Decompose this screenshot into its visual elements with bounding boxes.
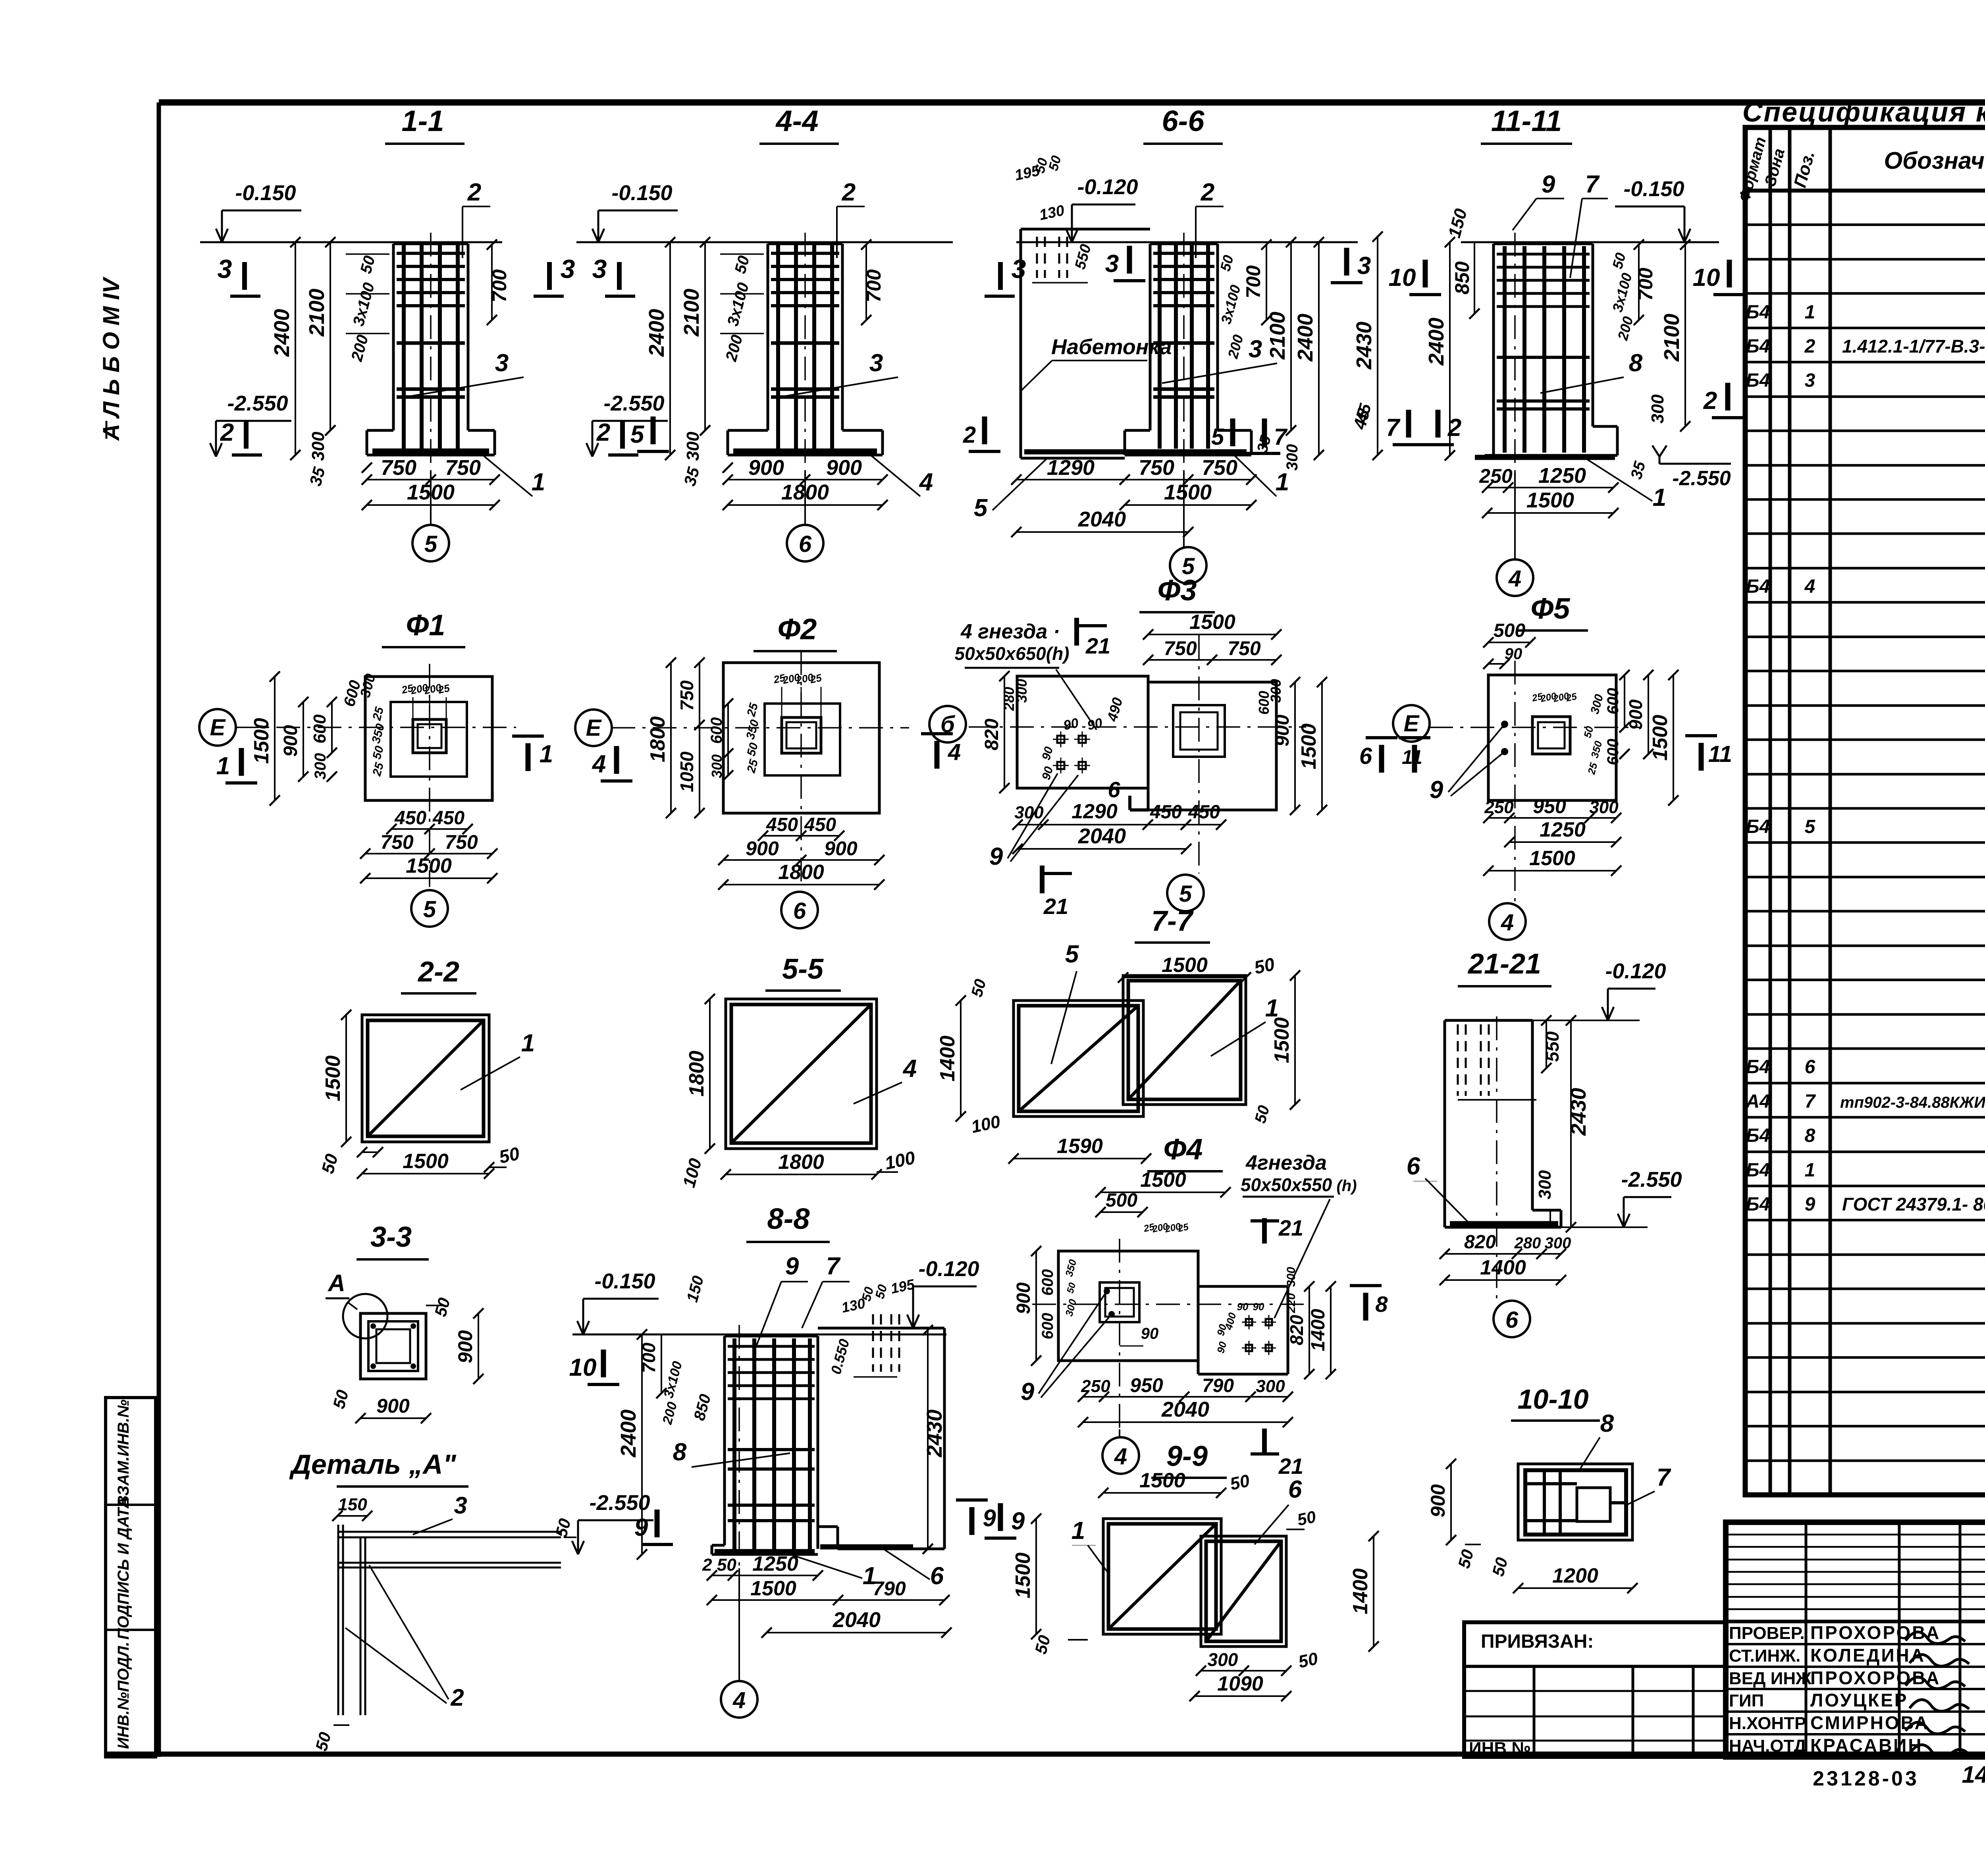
svg-text:90: 90	[1141, 1325, 1159, 1342]
svg-text:750: 750	[676, 680, 697, 711]
svg-text:1: 1	[1805, 302, 1815, 323]
svg-text:2: 2	[963, 422, 976, 448]
svg-text:90: 90	[1086, 715, 1104, 733]
svg-text:6: 6	[799, 531, 812, 557]
svg-text:790: 790	[873, 1577, 906, 1600]
svg-text:90: 90	[1237, 1301, 1249, 1313]
sidebar stamp boxes	[106, 1398, 156, 1757]
svg-text:4гнезда: 4гнезда	[1245, 1151, 1327, 1174]
svg-text:9: 9	[1805, 1194, 1815, 1215]
svg-text:450: 450	[766, 814, 798, 835]
svg-text:2: 2	[450, 1684, 464, 1711]
svg-text:90: 90	[1062, 715, 1080, 733]
svg-text:1500: 1500	[1526, 488, 1574, 512]
svg-text:3: 3	[1357, 252, 1371, 280]
svg-text:900: 900	[746, 837, 779, 860]
svg-text:1: 1	[1072, 1517, 1085, 1544]
svg-text:450: 450	[394, 808, 426, 829]
svg-text:ПОДПИСЬ И ДАТА: ПОДПИСЬ И ДАТА	[115, 1497, 132, 1640]
svg-text:10: 10	[1693, 264, 1720, 291]
svg-text:-0.150: -0.150	[1623, 177, 1684, 201]
svg-text:1: 1	[1805, 1160, 1815, 1181]
svg-text:КОЛЕДИНА: КОЛЕДИНА	[1810, 1645, 1925, 1666]
svg-text:600: 600	[1604, 688, 1622, 715]
svg-text:7: 7	[1274, 424, 1288, 450]
svg-text:7: 7	[1386, 414, 1401, 442]
svg-text:Деталь: Деталь	[289, 1449, 401, 1480]
svg-text:1250: 1250	[1540, 818, 1586, 841]
svg-text:Е: Е	[210, 715, 226, 740]
svg-text:Ф3: Ф3	[1158, 574, 1197, 607]
svg-text:23128-03: 23128-03	[1813, 1767, 1919, 1790]
svg-text:5-5: 5-5	[782, 953, 824, 985]
svg-text:6: 6	[1359, 743, 1372, 769]
svg-text:250: 250	[1484, 798, 1514, 817]
svg-text:4-4: 4-4	[775, 104, 819, 137]
svg-text:820: 820	[1286, 1315, 1307, 1345]
svg-text:9: 9	[983, 1505, 996, 1531]
svg-text:4: 4	[902, 1055, 917, 1082]
svg-text:1500: 1500	[250, 718, 273, 764]
svg-text:4: 4	[919, 469, 933, 496]
svg-text:5: 5	[1805, 816, 1816, 837]
svg-text:2-2: 2-2	[417, 956, 459, 988]
svg-text:750: 750	[380, 831, 414, 853]
svg-text:500: 500	[1106, 1190, 1137, 1211]
svg-text:1400: 1400	[1480, 1256, 1526, 1279]
svg-text:900: 900	[1013, 1282, 1034, 1314]
svg-text:8: 8	[1805, 1125, 1815, 1146]
svg-text:А: А	[327, 1270, 345, 1296]
svg-text:8: 8	[1375, 1292, 1388, 1317]
svg-text:тп902-3-84.88КЖИ.00.00.03.00: тп902-3-84.88КЖИ.00.00.03.00	[1840, 1094, 1985, 1111]
svg-text:900: 900	[454, 1330, 476, 1363]
svg-text:3: 3	[592, 254, 607, 283]
svg-text:2: 2	[596, 419, 610, 446]
svg-text:900: 900	[376, 1395, 410, 1417]
svg-text:2400: 2400	[1424, 318, 1448, 366]
svg-text:7: 7	[826, 1253, 841, 1280]
svg-text:Б4: Б4	[1746, 576, 1770, 597]
svg-text:2: 2	[1703, 387, 1717, 415]
svg-text:6-6: 6-6	[1162, 104, 1205, 137]
svg-text:1800: 1800	[685, 1051, 708, 1097]
svg-text:А4: А4	[1745, 1091, 1770, 1112]
svg-text:450: 450	[432, 808, 464, 829]
svg-text:1500: 1500	[406, 854, 452, 877]
svg-text:700: 700	[1242, 265, 1264, 299]
svg-text:2: 2	[842, 179, 856, 206]
svg-text:21-21: 21-21	[1467, 948, 1541, 980]
svg-text:2400: 2400	[645, 309, 669, 357]
drawing frame border	[159, 99, 1985, 106]
svg-text:б: б	[940, 711, 956, 737]
svg-text:50х50х550: 50х50х550	[1241, 1174, 1332, 1195]
svg-text:2: 2	[1447, 414, 1461, 442]
svg-text:4: 4	[1501, 910, 1514, 935]
svg-text:6: 6	[1407, 1153, 1420, 1180]
svg-text:„А": „А"	[409, 1449, 457, 1480]
svg-text:Набетонка: Набетонка	[1051, 335, 1172, 359]
svg-text:4: 4	[592, 750, 606, 778]
svg-text:5: 5	[424, 531, 437, 557]
svg-text:2: 2	[1201, 179, 1214, 206]
svg-text:Б4: Б4	[1746, 816, 1770, 837]
svg-text:1250: 1250	[752, 1552, 798, 1575]
svg-text:6: 6	[930, 1562, 944, 1590]
svg-text:820: 820	[1464, 1232, 1496, 1253]
svg-text:750: 750	[445, 456, 481, 480]
svg-text:9: 9	[785, 1253, 799, 1280]
svg-text:900: 900	[1625, 699, 1646, 730]
svg-text:4: 4	[732, 1687, 746, 1713]
svg-text:КРАСАВИН: КРАСАВИН	[1810, 1735, 1923, 1756]
svg-text:21: 21	[1043, 894, 1068, 919]
svg-text:4: 4	[1114, 1444, 1127, 1469]
svg-text:(h): (h)	[1336, 1177, 1357, 1195]
svg-text:9: 9	[634, 1514, 648, 1541]
svg-text:Ф4: Ф4	[1164, 1133, 1203, 1166]
svg-text:7: 7	[1585, 171, 1600, 198]
svg-text:900: 900	[824, 837, 858, 860]
svg-text:3-3: 3-3	[370, 1221, 412, 1253]
svg-text:Б4: Б4	[1746, 1194, 1770, 1215]
svg-text:1050: 1050	[676, 751, 697, 792]
svg-text:450: 450	[1150, 802, 1182, 823]
svg-text:600: 600	[1256, 691, 1272, 715]
svg-text:-0.120: -0.120	[1605, 959, 1666, 983]
svg-text:3: 3	[869, 349, 883, 377]
svg-text:ИНВ.№ПОДЛ.: ИНВ.№ПОДЛ.	[115, 1642, 132, 1749]
svg-text:1800: 1800	[778, 861, 824, 884]
svg-text:9: 9	[1542, 171, 1555, 198]
svg-text:Ф2: Ф2	[778, 613, 817, 646]
svg-text:2430: 2430	[1352, 322, 1376, 370]
svg-text:-2.550: -2.550	[1621, 1168, 1682, 1192]
svg-text:600: 600	[1604, 739, 1622, 765]
svg-text:300: 300	[312, 753, 329, 780]
svg-text:11: 11	[1402, 746, 1422, 768]
svg-text:9: 9	[1430, 776, 1443, 804]
svg-text:2430: 2430	[923, 1409, 946, 1458]
svg-text:1500: 1500	[1529, 847, 1575, 870]
svg-text:50: 50	[1295, 1507, 1317, 1529]
svg-text:8-8: 8-8	[767, 1202, 810, 1235]
svg-text:300: 300	[1256, 1377, 1285, 1396]
svg-text:9-9: 9-9	[1166, 1440, 1208, 1472]
svg-text:1500: 1500	[1649, 715, 1672, 761]
svg-text:Б4: Б4	[1746, 336, 1770, 357]
svg-text:750: 750	[1164, 637, 1197, 659]
svg-text:750: 750	[381, 456, 416, 480]
svg-text:280: 280	[1514, 1234, 1541, 1252]
svg-text:Ф1: Ф1	[406, 609, 445, 642]
svg-text:250: 250	[1479, 465, 1513, 487]
svg-text:300: 300	[1014, 679, 1030, 703]
svg-text:-0.150: -0.150	[611, 181, 672, 205]
svg-text:600: 600	[1039, 1269, 1056, 1296]
svg-text:1290: 1290	[1072, 800, 1118, 823]
signatures	[1906, 1632, 1969, 1756]
svg-text:1400: 1400	[1308, 1309, 1329, 1351]
svg-text:1.412.1-1/77-В.3-020: 1.412.1-1/77-В.3-020	[1842, 336, 1985, 357]
svg-text:600: 600	[1039, 1313, 1056, 1340]
svg-text:3: 3	[218, 254, 232, 283]
svg-text:11-11: 11-11	[1491, 104, 1562, 137]
svg-text:1500: 1500	[1189, 611, 1235, 634]
svg-text:8: 8	[673, 1438, 687, 1466]
svg-text:90: 90	[1505, 645, 1522, 663]
svg-text:300: 300	[1535, 1170, 1555, 1199]
svg-text:ЛОУЦКЕР: ЛОУЦКЕР	[1810, 1690, 1908, 1710]
svg-text:1: 1	[1265, 995, 1279, 1022]
svg-text:1500: 1500	[322, 1055, 345, 1101]
svg-text:СТ.ИНЖ.: СТ.ИНЖ.	[1729, 1646, 1800, 1666]
svg-text:7-7: 7-7	[1151, 905, 1194, 937]
svg-text:2400: 2400	[1293, 314, 1317, 362]
svg-text:1: 1	[1653, 484, 1666, 511]
svg-text:700: 700	[638, 1342, 659, 1373]
svg-text:Ф5: Ф5	[1531, 592, 1571, 625]
svg-text:700: 700	[488, 269, 511, 303]
svg-text:900: 900	[280, 725, 301, 757]
svg-text:2100: 2100	[1660, 314, 1684, 362]
svg-text:1090: 1090	[1217, 1672, 1263, 1695]
svg-text:Б4: Б4	[1746, 1057, 1770, 1078]
svg-text:НАЧ.ОТД: НАЧ.ОТД	[1729, 1736, 1806, 1756]
svg-text:2 50: 2 50	[702, 1555, 736, 1575]
svg-text:2400: 2400	[617, 1409, 640, 1458]
svg-text:2040: 2040	[1161, 1398, 1209, 1421]
svg-text:5: 5	[423, 897, 436, 922]
svg-text:6: 6	[1805, 1057, 1815, 1078]
svg-text:3: 3	[561, 254, 575, 283]
svg-text:2: 2	[220, 419, 234, 446]
svg-text:2100: 2100	[305, 289, 329, 337]
svg-text:2400: 2400	[270, 309, 294, 357]
svg-text:3: 3	[1105, 250, 1119, 278]
svg-text:2100: 2100	[680, 289, 703, 337]
svg-text:ГИП: ГИП	[1729, 1691, 1764, 1710]
svg-text:ВЗАМ.ИНВ.№: ВЗАМ.ИНВ.№	[115, 1400, 132, 1507]
svg-text:10: 10	[1389, 264, 1416, 291]
svg-text:1800: 1800	[646, 716, 669, 762]
svg-text:6: 6	[793, 898, 806, 924]
svg-text:2: 2	[467, 179, 481, 206]
svg-text:300: 300	[1545, 1234, 1571, 1252]
svg-text:Н.ХОНТР: Н.ХОНТР	[1729, 1714, 1806, 1733]
svg-text:21: 21	[1278, 1215, 1303, 1240]
svg-text:ИНВ.№: ИНВ.№	[1469, 1739, 1531, 1758]
svg-text:2430: 2430	[1567, 1088, 1590, 1136]
svg-text:3: 3	[1249, 335, 1262, 363]
svg-text:10: 10	[569, 1354, 597, 1381]
svg-text:А Л Ь Б О М IV: А Л Ь Б О М IV	[98, 276, 124, 441]
svg-text:Е: Е	[586, 715, 602, 741]
svg-text:-0.150: -0.150	[235, 181, 296, 205]
svg-text:300: 300	[1648, 394, 1667, 424]
svg-text:700: 700	[1634, 268, 1657, 301]
svg-text:600: 600	[708, 717, 725, 744]
svg-text:5: 5	[630, 421, 645, 448]
svg-text:Б4: Б4	[1746, 302, 1770, 323]
svg-text:900: 900	[748, 456, 784, 480]
svg-text:1200: 1200	[1552, 1564, 1598, 1587]
svg-text:550: 550	[1542, 1031, 1563, 1062]
svg-text:3: 3	[495, 349, 509, 377]
svg-text:Б4: Б4	[1746, 1160, 1770, 1181]
svg-text:7: 7	[1657, 1464, 1671, 1491]
svg-text:2040: 2040	[1078, 507, 1126, 531]
svg-text:4 гнезда ·: 4 гнезда ·	[960, 620, 1060, 643]
svg-text:1: 1	[521, 1030, 535, 1057]
svg-text:150: 150	[338, 1495, 367, 1514]
svg-text:700: 700	[863, 269, 885, 303]
svg-text:-0.120: -0.120	[918, 1257, 979, 1281]
spec table grid	[1745, 127, 1985, 1495]
svg-text:3: 3	[454, 1492, 467, 1519]
svg-text:3: 3	[1805, 370, 1815, 391]
section marks near 4-4	[651, 416, 656, 444]
svg-text:750: 750	[1202, 456, 1237, 480]
svg-text:300: 300	[1208, 1649, 1238, 1670]
svg-text:14: 14	[1962, 1761, 1985, 1788]
svg-text:1400: 1400	[936, 1035, 959, 1082]
svg-text:-0.150: -0.150	[594, 1269, 655, 1293]
svg-text:2040: 2040	[1078, 824, 1126, 848]
svg-text:790: 790	[1202, 1375, 1234, 1396]
svg-text:5: 5	[974, 494, 988, 522]
svg-text:-2.550: -2.550	[1672, 467, 1731, 490]
svg-text:2: 2	[1804, 336, 1815, 357]
svg-text:-2.550: -2.550	[227, 391, 288, 415]
svg-text:6: 6	[1288, 1476, 1302, 1503]
svg-text:ВЕД ИНЖ: ВЕД ИНЖ	[1729, 1669, 1812, 1688]
svg-text:ПРИВЯЗАН:: ПРИВЯЗАН:	[1481, 1631, 1594, 1652]
svg-text:СМИРНОВА: СМИРНОВА	[1810, 1712, 1929, 1733]
svg-text:Б4: Б4	[1746, 1125, 1770, 1146]
svg-text:750: 750	[1139, 456, 1174, 480]
svg-text:ПРОВЕР.: ПРОВЕР.	[1729, 1623, 1805, 1643]
svg-text:1-1: 1-1	[402, 104, 444, 137]
svg-text:Спецификация к монолитным ф: Спецификация к монолитным фундаментам.	[1742, 96, 1985, 127]
svg-text:10-10: 10-10	[1517, 1384, 1588, 1415]
svg-text:1500: 1500	[1162, 954, 1208, 977]
svg-text:1290: 1290	[1047, 456, 1095, 480]
svg-text:450: 450	[804, 814, 836, 835]
svg-text:1250: 1250	[1538, 464, 1586, 488]
svg-text:5: 5	[1179, 881, 1192, 907]
svg-text:950: 950	[1130, 1374, 1163, 1396]
svg-text:500: 500	[1494, 620, 1525, 641]
svg-text:300: 300	[1589, 798, 1619, 817]
svg-text:600: 600	[310, 714, 330, 744]
svg-text:21: 21	[1278, 1454, 1303, 1479]
svg-text:220: 220	[1285, 1293, 1298, 1313]
svg-text:820: 820	[981, 719, 1002, 750]
svg-text:7: 7	[1805, 1091, 1816, 1112]
svg-text:1400: 1400	[1349, 1568, 1372, 1614]
svg-text:21: 21	[1085, 633, 1110, 658]
svg-text:50х50х650(h): 50х50х650(h)	[955, 643, 1070, 664]
svg-text:1500: 1500	[1297, 723, 1320, 769]
svg-text:5: 5	[1065, 941, 1079, 968]
svg-text:4: 4	[1804, 576, 1815, 597]
svg-text:Обозначение: Обозначение	[1884, 147, 1985, 174]
svg-text:950: 950	[1533, 795, 1566, 817]
svg-text:900: 900	[1272, 715, 1293, 746]
svg-text:1500: 1500	[1164, 480, 1212, 504]
svg-text:ГОСТ 24379.1- 80: ГОСТ 24379.1- 80	[1842, 1194, 1985, 1215]
svg-text:90: 90	[1253, 1301, 1264, 1313]
svg-text:Е: Е	[1404, 711, 1420, 737]
svg-text:1: 1	[540, 740, 553, 768]
svg-text:900: 900	[826, 456, 862, 480]
svg-text:Б4: Б4	[1746, 370, 1770, 391]
svg-text:9: 9	[1011, 1508, 1025, 1535]
svg-text:750: 750	[1228, 637, 1261, 659]
svg-text:-0.120: -0.120	[1077, 175, 1138, 199]
svg-text:6: 6	[1108, 777, 1120, 802]
svg-text:250: 250	[1081, 1377, 1110, 1396]
svg-text:-2.550: -2.550	[603, 391, 664, 415]
svg-text:5: 5	[1211, 424, 1224, 450]
svg-text:2100: 2100	[1266, 312, 1289, 360]
svg-text:900: 900	[1427, 1484, 1449, 1517]
svg-text:6: 6	[1505, 1307, 1519, 1333]
svg-text:3: 3	[1012, 254, 1026, 283]
svg-text:300: 300	[709, 754, 725, 778]
svg-text:4: 4	[1508, 566, 1521, 592]
svg-text:300: 300	[683, 432, 703, 461]
svg-text:-2.550: -2.550	[589, 1491, 650, 1515]
svg-text:450: 450	[1188, 802, 1220, 823]
svg-text:1: 1	[1276, 469, 1289, 496]
svg-text:11: 11	[1708, 741, 1732, 767]
svg-text:1500: 1500	[750, 1577, 796, 1600]
svg-text:1800: 1800	[778, 1151, 824, 1174]
svg-text:300: 300	[308, 432, 328, 461]
svg-text:1500: 1500	[1140, 1168, 1186, 1192]
svg-text:8: 8	[1600, 1410, 1614, 1437]
svg-text:1590: 1590	[1057, 1135, 1103, 1158]
svg-text:1500: 1500	[1012, 1552, 1035, 1598]
svg-text:1: 1	[532, 469, 545, 496]
svg-text:9: 9	[989, 843, 1003, 870]
svg-text:300: 300	[1285, 1267, 1298, 1287]
svg-text:750: 750	[445, 831, 478, 853]
svg-text:1500: 1500	[1139, 1469, 1185, 1492]
svg-text:9: 9	[1021, 1378, 1035, 1406]
title block stamp	[1726, 1522, 1985, 1757]
svg-text:1500: 1500	[1270, 1017, 1293, 1063]
svg-text:8: 8	[1629, 349, 1643, 377]
svg-text:1: 1	[216, 752, 230, 780]
svg-text:850: 850	[1451, 261, 1473, 295]
svg-text:2040: 2040	[833, 1608, 881, 1632]
privyazan box	[1464, 1622, 1726, 1757]
svg-text:1500: 1500	[403, 1150, 449, 1173]
